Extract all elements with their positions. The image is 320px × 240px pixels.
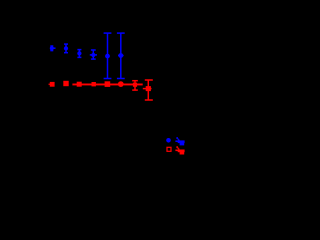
red point R7 error bar <box>132 80 138 90</box>
red point R5 marker <box>105 81 111 87</box>
blue point P2 error bar <box>64 44 68 53</box>
red point R8 error bar <box>143 80 153 100</box>
red point R1 marker <box>50 82 55 87</box>
legend label: blue lambda glyph <box>175 137 184 145</box>
blue point P5 error bar <box>104 33 112 79</box>
blue point P6 error bar <box>117 33 125 79</box>
red point R3 marker <box>77 82 82 87</box>
blue point P5 marker <box>105 54 110 59</box>
blue point P3 error bar <box>77 50 81 58</box>
blue point P6 marker <box>118 53 123 58</box>
legend label: red lambda glyph <box>175 146 184 154</box>
red point R8 marker <box>146 86 151 91</box>
blue point P3 marker <box>77 51 81 55</box>
red point R7 marker <box>133 83 137 87</box>
blue point P4 marker <box>91 53 95 57</box>
red point R6 marker <box>118 81 124 87</box>
blue point P1 marker <box>50 46 54 50</box>
legend marker: red open square <box>167 147 171 151</box>
blue point P1 error bar <box>50 46 55 51</box>
red horizontal line (x-error band) <box>72 84 142 86</box>
red point R4 marker <box>92 82 96 86</box>
blue point P4 error bar <box>90 50 97 59</box>
blue point P2 marker <box>64 46 68 50</box>
legend marker: blue filled circle <box>166 138 171 143</box>
red point R2 marker <box>63 81 68 86</box>
red point R1 left tick <box>49 83 50 85</box>
